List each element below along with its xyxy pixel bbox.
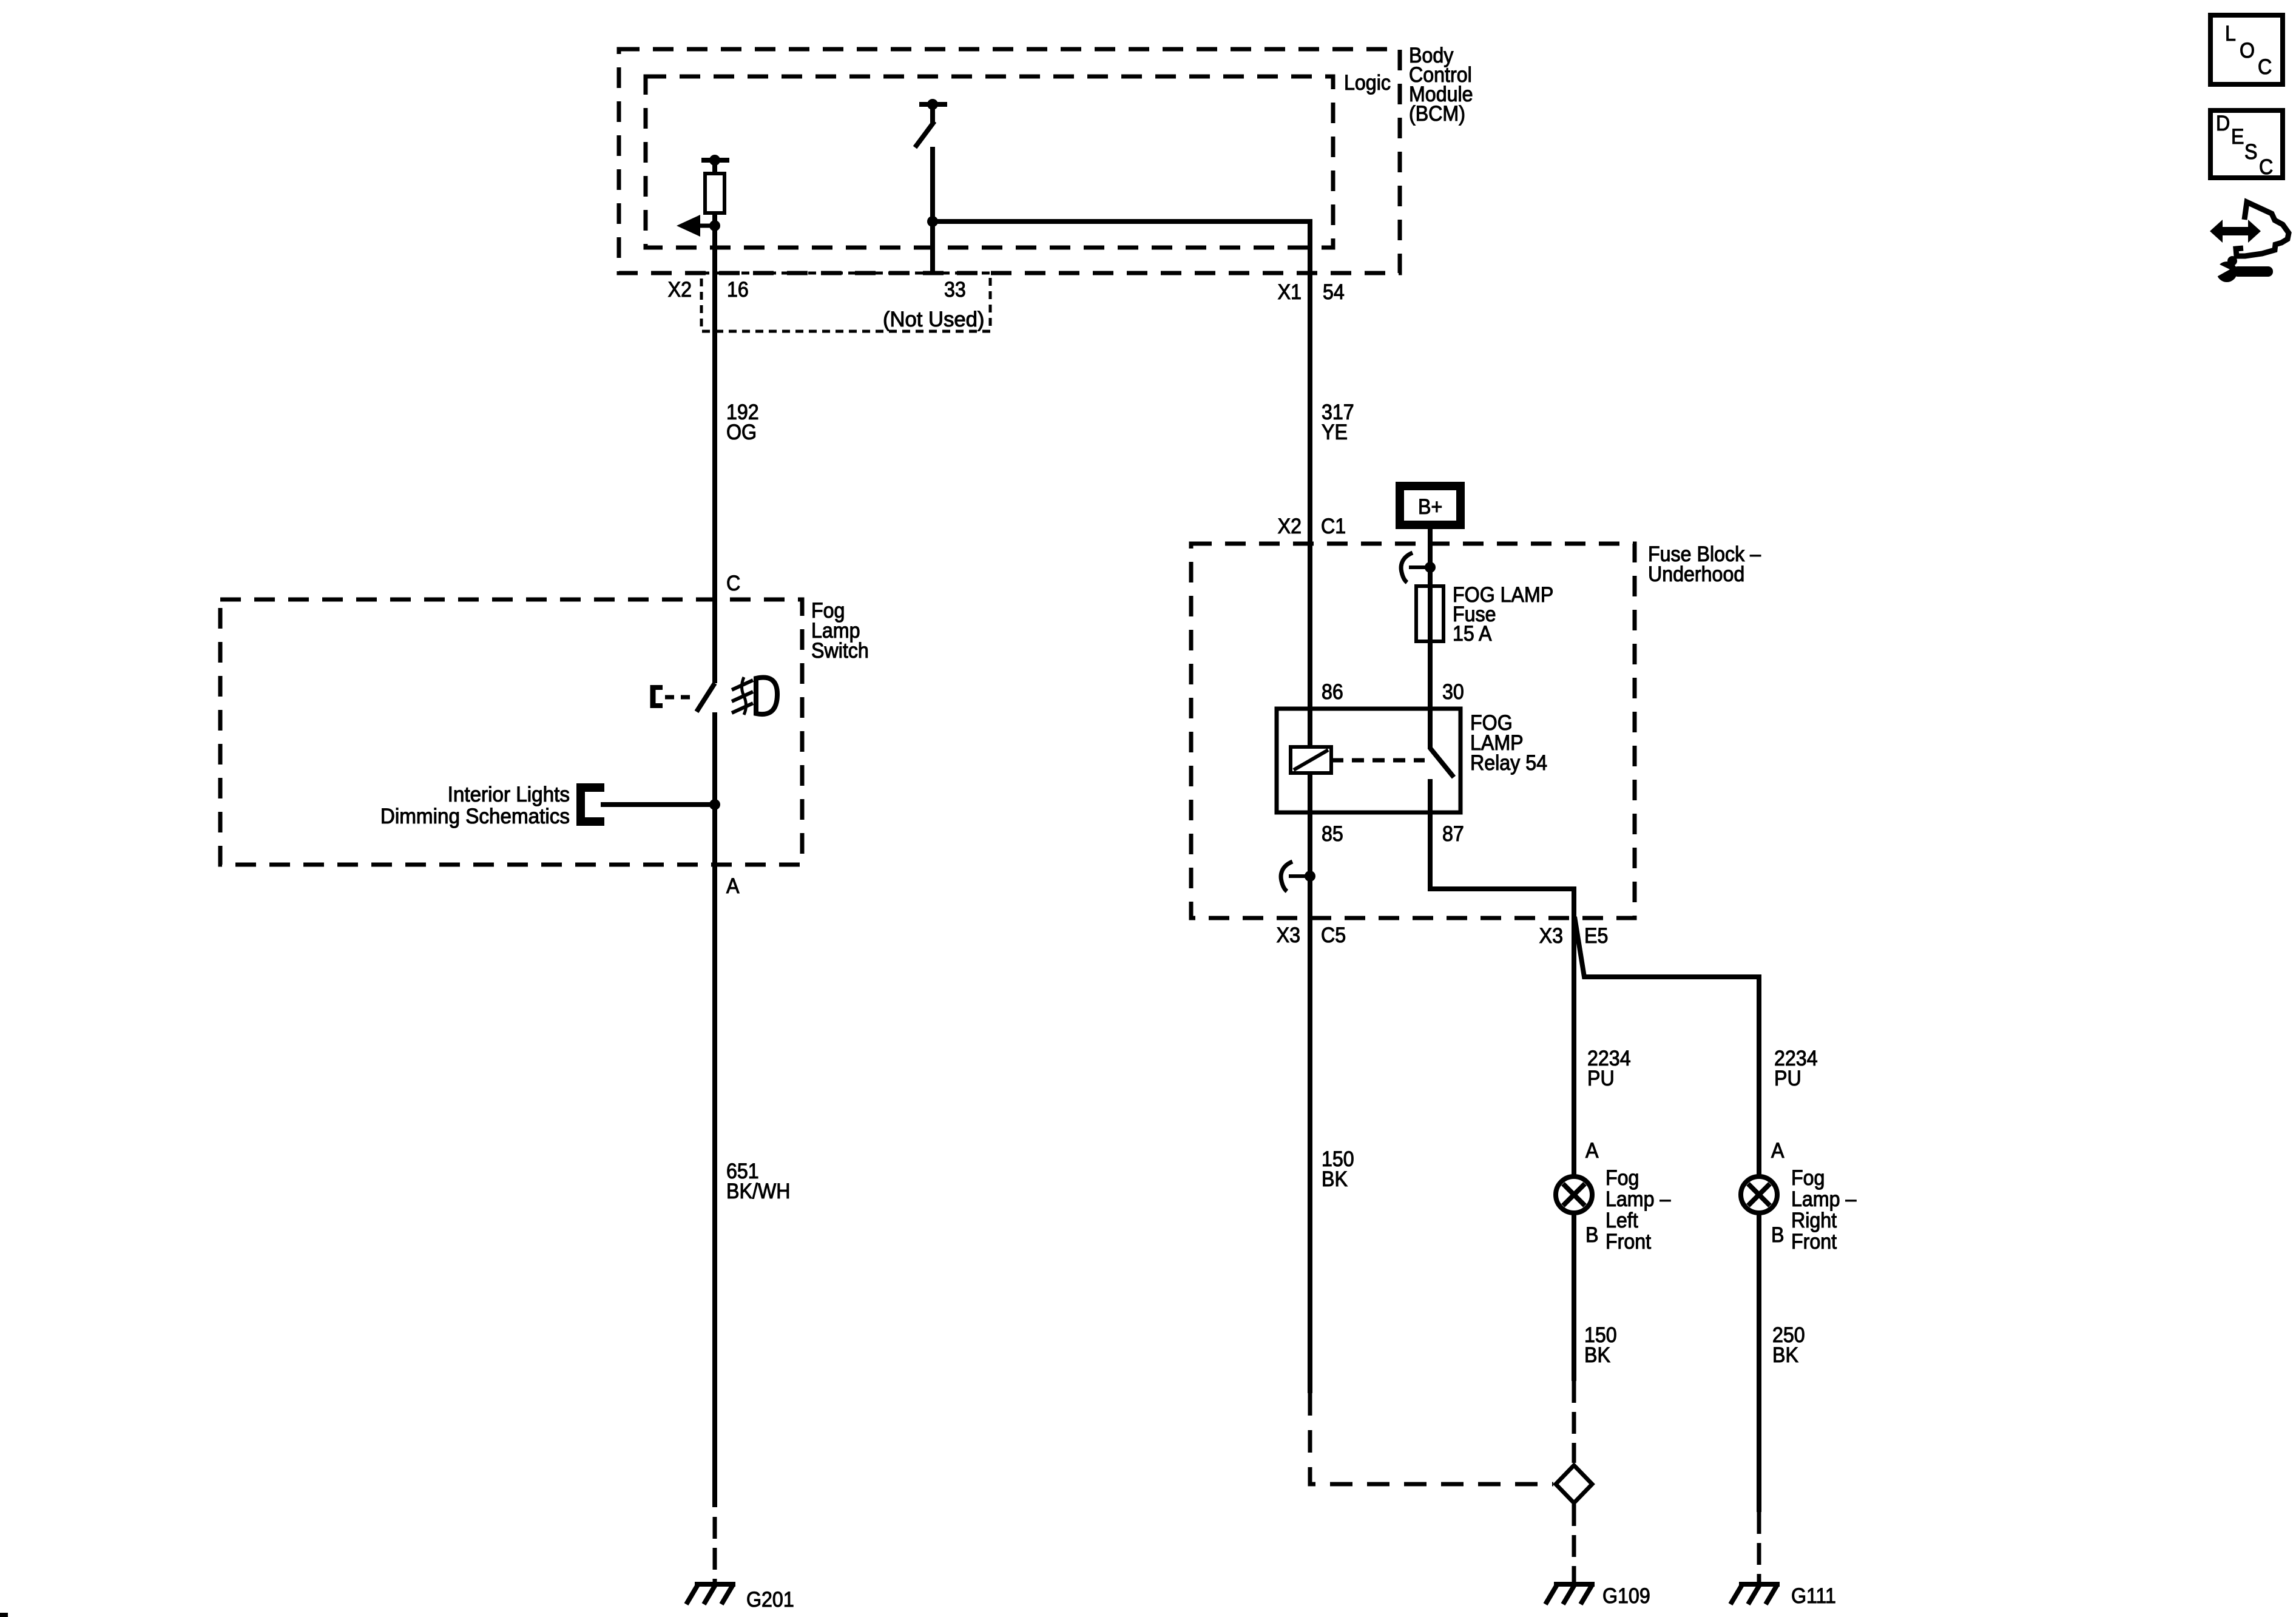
svg-text:A: A <box>1771 1139 1784 1163</box>
svg-text:X3: X3 <box>1539 925 1563 948</box>
ground G201 <box>695 1582 735 1587</box>
label Fog Lamp Right Front <box>1791 1167 1857 1254</box>
fog lamp relay box <box>1277 709 1460 812</box>
wire label 317 YE <box>1322 401 1354 445</box>
wire 192 OG (BCM pin 16 down to switch pin C) <box>712 226 717 683</box>
dashed wire to splice diamond <box>1572 1381 1576 1463</box>
svg-text:192OG: 192OG <box>726 401 759 445</box>
svg-text:54: 54 <box>1323 281 1345 305</box>
label G111 <box>1791 1585 1836 1609</box>
label FOG LAMP Fuse 15 A <box>1453 584 1553 646</box>
svg-text:G201: G201 <box>746 1588 794 1612</box>
fog lamp icon on switch <box>756 678 777 715</box>
svg-text:2234PU: 2234PU <box>1587 1047 1631 1091</box>
junction dot at switch output <box>927 216 938 227</box>
svg-text:B+: B+ <box>1418 496 1442 519</box>
dashed wire from C5 to splice diamond <box>1310 1393 1553 1484</box>
wire relay 87 to E5 and left fog lamp <box>1430 779 1574 1177</box>
svg-text:Fuse Block –Underhood: Fuse Block –Underhood <box>1648 543 1761 587</box>
wire label 2234 PU left <box>1587 1047 1631 1091</box>
interior lights dimming reference bracket <box>576 783 585 826</box>
svg-text:250BK: 250BK <box>1772 1324 1805 1368</box>
label Fog Lamp Switch <box>811 599 869 663</box>
bus bar clip at B+ feed <box>1425 562 1436 573</box>
BCM outer dashed box <box>619 49 1400 273</box>
svg-text:X1: X1 <box>1278 281 1302 305</box>
connector label X2 C1 <box>1278 515 1302 539</box>
svg-text:FOGLAMPRelay 54: FOGLAMPRelay 54 <box>1470 712 1547 775</box>
connector repair icon: double arrow <box>2210 220 2261 243</box>
svg-text:33: 33 <box>944 279 966 302</box>
relay pin label 85 <box>1322 823 1343 846</box>
label G109 <box>1602 1585 1650 1609</box>
pin label A left lamp <box>1585 1139 1599 1163</box>
relay coil <box>1291 747 1331 773</box>
wire resistor to junction <box>712 213 717 226</box>
svg-text:C: C <box>2258 56 2272 79</box>
wire label 192 OG <box>726 401 759 445</box>
svg-text:B: B <box>1585 1224 1598 1247</box>
wire below switch down to G201 area <box>712 712 717 1507</box>
svg-text:O: O <box>2240 39 2255 63</box>
fog lamp switch blade <box>697 683 715 712</box>
dashed actuator link <box>665 695 693 700</box>
junction dot interior lights tap <box>709 799 720 810</box>
pin label A right lamp <box>1771 1139 1784 1163</box>
pin label B left lamp <box>1585 1224 1598 1247</box>
svg-text:317YE: 317YE <box>1322 401 1354 445</box>
label 33 (Not Used) <box>944 279 966 302</box>
relay pin label 30 <box>1442 681 1464 704</box>
dashed wire to G201 <box>713 1517 717 1587</box>
wire label 2234 PU right <box>1774 1047 1818 1091</box>
connector label X1 54 <box>1278 281 1302 305</box>
right fog lamp <box>1741 1176 1777 1213</box>
label Fog Lamp Left Front <box>1606 1167 1671 1254</box>
BCM Logic inner dashed box <box>646 76 1333 248</box>
internal switch in BCM logic <box>919 102 947 107</box>
svg-text:E: E <box>2231 126 2244 149</box>
wire below right fog lamp <box>1757 1212 1761 1512</box>
connector label X3 E5 <box>1539 925 1563 948</box>
svg-text:X2: X2 <box>1278 515 1302 539</box>
wire label 150 BK bottom <box>1584 1324 1617 1368</box>
wire to interior lights dimming schematics <box>601 802 715 807</box>
Fuse Block Underhood dashed box <box>1191 544 1635 918</box>
arrow (signal direction) <box>693 224 715 228</box>
label Interior Lights Dimming Schematics <box>380 783 570 828</box>
connector label X2 16 <box>668 279 692 302</box>
label Body Control Module (BCM) <box>1409 44 1473 126</box>
label Logic <box>1344 72 1391 95</box>
label FOG LAMP Relay 54 <box>1470 712 1547 775</box>
junction dot at resistor output <box>709 220 720 231</box>
svg-text:(Not Used): (Not Used) <box>883 308 984 331</box>
fuse FOG LAMP 15 A <box>1416 586 1443 641</box>
connector label X3 C5 <box>1277 924 1300 948</box>
pin label B right lamp <box>1771 1224 1784 1247</box>
switch actuator bracket <box>650 685 656 708</box>
page corner mark <box>0 1613 8 1617</box>
relay dashed actuator link <box>1331 758 1425 763</box>
wire label 250 BK bottom <box>1772 1324 1805 1368</box>
label G201 <box>746 1588 794 1612</box>
dashed wire below diamond to G109 <box>1572 1504 1576 1587</box>
svg-text:2234PU: 2234PU <box>1774 1047 1818 1091</box>
svg-text:X2: X2 <box>668 279 692 302</box>
Fog Lamp Switch dashed box <box>220 599 802 865</box>
not-used dotted box <box>701 273 990 331</box>
wire label 150 BK at C5 <box>1322 1148 1354 1192</box>
svg-text:B: B <box>1771 1224 1784 1247</box>
svg-text:Interior LightsDimming Schemat: Interior LightsDimming Schematics <box>380 783 570 828</box>
svg-text:85: 85 <box>1322 823 1343 846</box>
svg-text:16: 16 <box>727 279 749 302</box>
svg-text:150BK: 150BK <box>1322 1148 1354 1192</box>
dashed wire to G111 <box>1757 1512 1761 1587</box>
svg-text:FogLampSwitch: FogLampSwitch <box>811 599 869 663</box>
resistor in BCM logic <box>701 158 729 163</box>
ground G109 <box>1554 1582 1595 1587</box>
relay pin label 86 <box>1322 681 1343 704</box>
svg-text:E5: E5 <box>1584 925 1608 948</box>
svg-text:87: 87 <box>1442 823 1464 846</box>
left fog lamp <box>1556 1176 1592 1213</box>
svg-text:C1: C1 <box>1321 515 1346 539</box>
LOC icon box <box>2210 15 2283 84</box>
svg-text:Logic: Logic <box>1344 72 1391 95</box>
svg-text:FogLamp –RightFront: FogLamp –RightFront <box>1791 1167 1857 1254</box>
pin label A <box>726 875 740 899</box>
DESC icon box <box>2210 110 2283 178</box>
svg-text:FOG LAMPFuse15 A: FOG LAMPFuse15 A <box>1453 584 1553 646</box>
svg-text:L: L <box>2225 22 2236 46</box>
wire below left fog lamp <box>1572 1212 1576 1381</box>
connector repair icon: wrench <box>2217 262 2237 282</box>
svg-text:FogLamp –LeftFront: FogLamp –LeftFront <box>1606 1167 1671 1254</box>
ground G111 <box>1739 1582 1780 1587</box>
svg-text:S: S <box>2244 141 2257 164</box>
label Fuse Block Underhood <box>1648 543 1761 587</box>
svg-text:BodyControlModule(BCM): BodyControlModule(BCM) <box>1409 44 1473 126</box>
relay pin label 87 <box>1442 823 1464 846</box>
connector repair icon: connector outline <box>2236 202 2289 256</box>
svg-text:A: A <box>726 875 740 899</box>
wire branch to right fog lamp <box>1575 917 1759 1177</box>
battery feed B+ <box>1396 482 1465 529</box>
wire label 651 BK/WH <box>726 1160 790 1204</box>
wire stub to pin 33 (not used) <box>930 221 935 274</box>
svg-text:86: 86 <box>1322 681 1343 704</box>
pin label C <box>726 572 740 596</box>
bus bar clip at relay 85 <box>1305 871 1315 882</box>
svg-text:D: D <box>2216 112 2230 136</box>
splice diamond <box>1556 1465 1592 1503</box>
svg-text:X3: X3 <box>1277 924 1300 948</box>
svg-text:A: A <box>1585 1139 1599 1163</box>
svg-text:G111: G111 <box>1791 1585 1836 1609</box>
wire junction to BCM pin 54 and down to relay coil pin 86 <box>933 221 1310 747</box>
wire relay coil to pin 85 and down to splice pack <box>1308 773 1312 1393</box>
relay switch blade <box>1430 748 1454 777</box>
wire internal switch to junction <box>930 147 935 221</box>
svg-text:C5: C5 <box>1321 924 1346 948</box>
svg-text:651BK/WH: 651BK/WH <box>726 1160 790 1204</box>
svg-text:30: 30 <box>1442 681 1464 704</box>
wire B+ down through fuse to relay pin 30 <box>1428 529 1433 749</box>
svg-text:C: C <box>2259 156 2273 180</box>
svg-text:G109: G109 <box>1602 1585 1650 1609</box>
svg-text:150BK: 150BK <box>1584 1324 1617 1368</box>
svg-text:C: C <box>726 572 740 596</box>
